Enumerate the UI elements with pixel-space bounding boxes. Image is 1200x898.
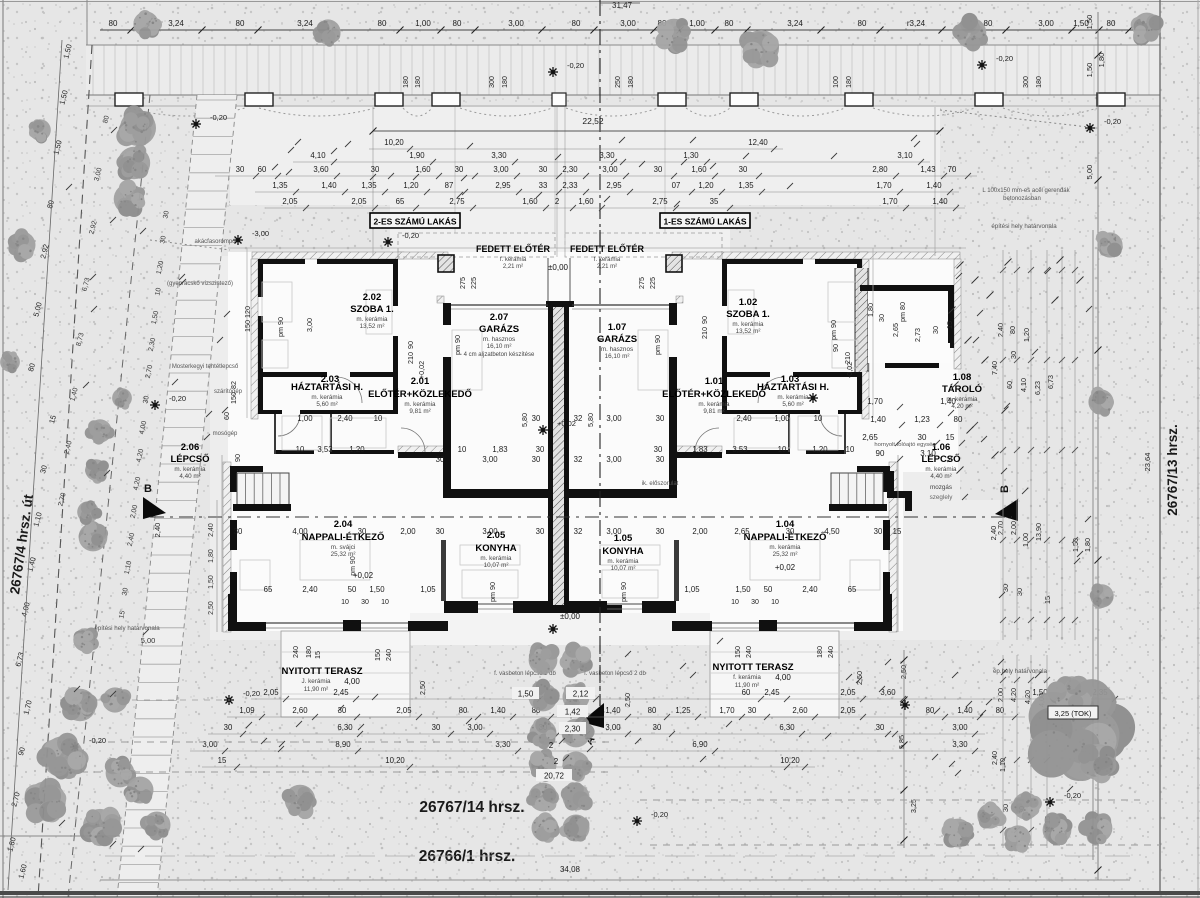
svg-text:30: 30 bbox=[654, 445, 663, 454]
svg-text:120: 120 bbox=[243, 306, 252, 318]
svg-text:1,30: 1,30 bbox=[683, 151, 699, 160]
svg-text:10: 10 bbox=[374, 414, 383, 423]
svg-text:B: B bbox=[999, 485, 1011, 493]
svg-text:LÉPCSŐ: LÉPCSŐ bbox=[170, 453, 209, 465]
svg-text:65: 65 bbox=[264, 585, 273, 594]
svg-text:KONYHA: KONYHA bbox=[602, 546, 643, 557]
svg-text:4,00: 4,00 bbox=[292, 527, 308, 536]
építési hely dotted bbox=[940, 110, 1088, 127]
svg-text:10,07 m²: 10,07 m² bbox=[611, 565, 636, 572]
tree bbox=[559, 815, 589, 842]
star marker bbox=[548, 67, 558, 77]
svg-text:32: 32 bbox=[574, 527, 583, 536]
wall bbox=[393, 336, 398, 377]
fence post bbox=[375, 93, 403, 106]
svg-text:32: 32 bbox=[574, 455, 583, 464]
svg-text:3,10: 3,10 bbox=[920, 449, 936, 458]
tree bbox=[739, 30, 779, 68]
svg-text:1,09: 1,09 bbox=[239, 706, 254, 715]
svg-text:80: 80 bbox=[858, 19, 867, 28]
svg-text:26766/1 hrsz.: 26766/1 hrsz. bbox=[419, 848, 516, 865]
tree bbox=[1028, 679, 1135, 781]
svg-text:pm 90: pm 90 bbox=[276, 317, 285, 337]
star marker bbox=[900, 700, 910, 710]
party-wall fence stub bbox=[552, 93, 566, 106]
star marker bbox=[1085, 123, 1095, 133]
tree bbox=[1004, 825, 1030, 852]
wall bbox=[408, 621, 448, 631]
svg-text:SZOBA 1.: SZOBA 1. bbox=[350, 304, 393, 315]
road pavement band with vertical hatch bbox=[86, 45, 1160, 95]
svg-text:1,50: 1,50 bbox=[369, 585, 385, 594]
svg-text:100: 100 bbox=[833, 76, 840, 88]
svg-text:15: 15 bbox=[218, 756, 227, 765]
svg-text:1,00: 1,00 bbox=[1021, 533, 1030, 547]
svg-text:25,32 m²: 25,32 m² bbox=[773, 551, 798, 558]
svg-text:m. kerámia: m. kerámia bbox=[777, 394, 809, 401]
svg-text:2,45: 2,45 bbox=[764, 688, 780, 697]
svg-text:2,21 m²: 2,21 m² bbox=[503, 264, 523, 270]
svg-text:3,00: 3,00 bbox=[606, 414, 622, 423]
svg-text:-0,20: -0,20 bbox=[1104, 117, 1121, 126]
wall bbox=[258, 372, 327, 377]
svg-text:akácfasorompó: akácfasorompó bbox=[194, 239, 236, 245]
svg-text:30: 30 bbox=[361, 599, 369, 606]
svg-text:m. kerámia: m. kerámia bbox=[174, 466, 206, 473]
svg-text:2,50: 2,50 bbox=[208, 601, 215, 615]
svg-text:m. kerámia: m. kerámia bbox=[769, 544, 801, 551]
svg-text:FEDETT ELŐTÉR: FEDETT ELŐTÉR bbox=[570, 243, 645, 254]
facade parallel guide lines bbox=[221, 455, 223, 632]
svg-text:3,25: 3,25 bbox=[909, 799, 918, 813]
star marker bbox=[548, 624, 558, 634]
svg-text:210: 210 bbox=[406, 352, 415, 364]
hedge overlay labels bbox=[512, 687, 539, 699]
wall bbox=[883, 572, 890, 594]
white strip between terraces bbox=[410, 613, 710, 645]
svg-text:6,30: 6,30 bbox=[337, 723, 353, 732]
svg-text:2,00: 2,00 bbox=[692, 527, 708, 536]
svg-text:r3,24: r3,24 bbox=[907, 19, 926, 28]
section marker B right bbox=[995, 499, 1018, 521]
svg-text:1,35: 1,35 bbox=[361, 181, 377, 190]
section line B-B over building bbox=[150, 516, 1012, 518]
svg-text:65: 65 bbox=[396, 197, 405, 206]
right lot boundary line bbox=[1159, 0, 1161, 893]
svg-text:34,08: 34,08 bbox=[560, 865, 581, 874]
svg-text:3,10: 3,10 bbox=[897, 151, 913, 160]
wall bbox=[722, 259, 803, 264]
building ground zone bbox=[210, 256, 1000, 640]
svg-text:1,40: 1,40 bbox=[926, 181, 942, 190]
wall bbox=[883, 520, 890, 550]
svg-text:07: 07 bbox=[672, 181, 681, 190]
fence post bbox=[1097, 93, 1125, 106]
tree bbox=[37, 733, 89, 780]
svg-text:6,23: 6,23 bbox=[1033, 381, 1042, 395]
svg-text:-0,20: -0,20 bbox=[243, 689, 260, 698]
svg-text:30: 30 bbox=[236, 165, 245, 174]
svg-text:16,10 m²: 16,10 m² bbox=[487, 343, 512, 350]
wall bbox=[883, 466, 890, 492]
svg-text:GARÁZS: GARÁZS bbox=[479, 324, 519, 335]
svg-text:2,60: 2,60 bbox=[292, 706, 308, 715]
svg-text:B: B bbox=[144, 483, 152, 495]
svg-text:f. kerámia: f. kerámia bbox=[500, 257, 527, 263]
entrance stair left 2.06 bbox=[237, 473, 289, 505]
svg-text:30: 30 bbox=[539, 165, 548, 174]
svg-text:pm 90: pm 90 bbox=[453, 335, 462, 355]
svg-text:80: 80 bbox=[725, 19, 734, 28]
tree bbox=[1090, 583, 1114, 608]
svg-text:2,40: 2,40 bbox=[337, 414, 353, 423]
svg-text:4 cm aljzatbeton készítése: 4 cm aljzatbeton készítése bbox=[464, 352, 535, 358]
svg-text:30: 30 bbox=[532, 414, 541, 423]
svg-text:225: 225 bbox=[648, 277, 657, 289]
tree bbox=[282, 785, 317, 819]
svg-text:2,40: 2,40 bbox=[153, 523, 162, 538]
svg-text:275: 275 bbox=[637, 277, 646, 289]
svg-text:26767/14 hrsz.: 26767/14 hrsz. bbox=[419, 799, 524, 816]
svg-text:8,90: 8,90 bbox=[335, 740, 351, 749]
right dimension line bbox=[1097, 12, 1099, 880]
wall bbox=[317, 259, 398, 264]
svg-text:2,05: 2,05 bbox=[840, 688, 856, 697]
svg-text:30: 30 bbox=[653, 723, 662, 732]
svg-text:3,00: 3,00 bbox=[202, 740, 218, 749]
tree size label bbox=[1048, 706, 1098, 719]
svg-text:-0,20: -0,20 bbox=[567, 61, 584, 70]
svg-text:4,40 m²: 4,40 m² bbox=[930, 473, 951, 480]
kitchen window right bbox=[607, 603, 642, 605]
section marker B left bbox=[143, 497, 166, 519]
svg-text:1,60: 1,60 bbox=[691, 165, 707, 174]
svg-text:4,00: 4,00 bbox=[775, 673, 791, 682]
tree bbox=[124, 777, 154, 804]
svg-text:3,00: 3,00 bbox=[602, 165, 618, 174]
utility sag dotted line bbox=[129, 108, 1097, 116]
tree bbox=[532, 812, 560, 843]
svg-text:30: 30 bbox=[224, 723, 233, 732]
svg-text:NYITOTT TERASZ: NYITOTT TERASZ bbox=[281, 666, 362, 677]
svg-text:30: 30 bbox=[751, 599, 759, 606]
svg-text:9,81 m²: 9,81 m² bbox=[703, 408, 724, 415]
bath south walls bbox=[274, 450, 314, 454]
svg-text:2,50: 2,50 bbox=[899, 665, 908, 679]
tree bbox=[8, 228, 36, 262]
svg-text:2,75: 2,75 bbox=[449, 197, 465, 206]
wall bbox=[443, 357, 451, 498]
tree bbox=[105, 756, 136, 788]
door arcs bbox=[336, 377, 362, 403]
svg-text:hornyolt tolóajtó egység: hornyolt tolóajtó egység bbox=[874, 442, 935, 448]
facade insulation hatch bbox=[252, 252, 404, 259]
svg-text:1,40: 1,40 bbox=[940, 397, 956, 406]
right side steps walls bbox=[887, 471, 894, 493]
fence post bbox=[432, 93, 460, 106]
svg-text:80: 80 bbox=[236, 19, 245, 28]
svg-text:2,40: 2,40 bbox=[302, 585, 318, 594]
svg-text:1,20: 1,20 bbox=[698, 181, 714, 190]
party wall top cap bbox=[546, 301, 574, 307]
svg-text:30: 30 bbox=[436, 455, 445, 464]
wall bbox=[838, 410, 862, 414]
tree bbox=[313, 19, 341, 46]
tree bbox=[1047, 676, 1094, 720]
wall bbox=[722, 372, 770, 377]
star marker bbox=[191, 119, 201, 129]
svg-text:1,83: 1,83 bbox=[492, 445, 507, 454]
right vertical chains bbox=[1002, 250, 1004, 640]
porch column right bbox=[666, 255, 682, 272]
svg-text:10: 10 bbox=[846, 445, 855, 454]
wall bbox=[228, 622, 266, 631]
svg-text:1,80: 1,80 bbox=[866, 303, 875, 317]
tároló walls bbox=[860, 285, 954, 291]
tree bbox=[942, 818, 975, 847]
star marker bbox=[1045, 797, 1055, 807]
tree bbox=[977, 801, 1006, 828]
tick scatter right of building bbox=[957, 262, 964, 269]
svg-text:1.02: 1.02 bbox=[739, 297, 758, 308]
wall bbox=[857, 372, 862, 414]
svg-text:+0,02: +0,02 bbox=[775, 563, 796, 572]
svg-text:1,00: 1,00 bbox=[689, 19, 705, 28]
wall bbox=[230, 520, 237, 550]
svg-text:1,00: 1,00 bbox=[297, 414, 313, 423]
building footprint white bbox=[228, 252, 958, 631]
svg-text:30: 30 bbox=[1001, 584, 1010, 592]
svg-text:3,24: 3,24 bbox=[297, 19, 313, 28]
wall bbox=[722, 410, 820, 414]
svg-text:31,47: 31,47 bbox=[612, 1, 633, 10]
svg-text:90: 90 bbox=[876, 449, 885, 458]
svg-text:1,20: 1,20 bbox=[1022, 328, 1031, 342]
garage door right bbox=[572, 304, 669, 306]
svg-text:3,00: 3,00 bbox=[606, 527, 622, 536]
wall bbox=[564, 601, 607, 613]
svg-text:pm 90: pm 90 bbox=[488, 582, 497, 602]
svg-text:6,30: 6,30 bbox=[779, 723, 795, 732]
wall bbox=[258, 316, 263, 377]
svg-text:2,70: 2,70 bbox=[996, 521, 1005, 535]
svg-text:10,07 m²: 10,07 m² bbox=[484, 562, 509, 569]
svg-text:m. kerámia: m. kerámia bbox=[480, 555, 512, 562]
wall bbox=[258, 410, 282, 414]
svg-text:30: 30 bbox=[739, 165, 748, 174]
svg-text:180: 180 bbox=[1036, 76, 1043, 88]
svg-text:3,00: 3,00 bbox=[606, 455, 622, 464]
svg-text:1,70: 1,70 bbox=[867, 397, 883, 406]
tree bbox=[1088, 387, 1114, 417]
svg-text:mosógép: mosógép bbox=[213, 431, 238, 437]
svg-text:16,10 m²: 16,10 m² bbox=[605, 353, 630, 360]
svg-text:10: 10 bbox=[458, 445, 467, 454]
svg-text:3,00: 3,00 bbox=[605, 723, 621, 732]
svg-text:80: 80 bbox=[378, 19, 387, 28]
svg-text:-0,20: -0,20 bbox=[651, 810, 668, 819]
star marker bbox=[632, 816, 642, 826]
svg-text:1,83: 1,83 bbox=[692, 445, 707, 454]
tree bbox=[133, 10, 162, 39]
tree bbox=[24, 778, 66, 823]
sheet bottom edge bbox=[0, 891, 1200, 895]
svg-text:1,20: 1,20 bbox=[812, 445, 828, 454]
svg-text:2: 2 bbox=[549, 741, 554, 750]
svg-text:2,05: 2,05 bbox=[351, 197, 367, 206]
tároló wing hatch wall bbox=[855, 268, 868, 372]
svg-text:m. kerámia: m. kerámia bbox=[607, 558, 639, 565]
svg-text:m. kerámia: m. kerámia bbox=[404, 401, 436, 408]
svg-text:szárítógép: szárítógép bbox=[214, 389, 243, 395]
svg-text:250: 250 bbox=[615, 76, 622, 88]
wall bbox=[722, 336, 727, 377]
svg-text:2,05: 2,05 bbox=[840, 706, 856, 715]
wall bbox=[393, 259, 398, 306]
svg-text:1,60: 1,60 bbox=[415, 165, 431, 174]
svg-text:13,52 m²: 13,52 m² bbox=[360, 323, 385, 330]
svg-text:-0,20: -0,20 bbox=[1064, 791, 1081, 800]
sheet top edge bbox=[0, 1, 1200, 3]
centreline over building bbox=[599, 230, 601, 706]
svg-text:3,00: 3,00 bbox=[482, 527, 498, 536]
svg-text:3,24: 3,24 bbox=[168, 19, 184, 28]
svg-text:1,70: 1,70 bbox=[876, 181, 892, 190]
svg-text:-0,02: -0,02 bbox=[845, 362, 854, 378]
svg-text:5,80: 5,80 bbox=[586, 413, 595, 427]
tree bbox=[563, 682, 590, 711]
fence line with posts bbox=[86, 94, 1160, 96]
svg-text:2.06: 2.06 bbox=[181, 442, 200, 453]
svg-text:80: 80 bbox=[1107, 19, 1116, 28]
svg-text:NAPPALI-ÉTKEZŐ: NAPPALI-ÉTKEZŐ bbox=[302, 531, 385, 543]
svg-text:6,90: 6,90 bbox=[692, 740, 708, 749]
svg-text:1,40: 1,40 bbox=[490, 706, 506, 715]
svg-text:11,90 m²: 11,90 m² bbox=[304, 686, 328, 693]
svg-text:1,43: 1,43 bbox=[920, 165, 935, 174]
star marker bbox=[977, 60, 987, 70]
svg-text:90: 90 bbox=[406, 341, 415, 349]
svg-text:80: 80 bbox=[996, 706, 1005, 715]
svg-text:300: 300 bbox=[1023, 76, 1030, 88]
svg-text:1,50: 1,50 bbox=[208, 575, 215, 589]
wall bbox=[343, 620, 361, 631]
svg-text:30: 30 bbox=[874, 527, 883, 536]
svg-text:f. kerámia: f. kerámia bbox=[733, 674, 761, 681]
porch outline right bbox=[565, 233, 722, 257]
wall bbox=[854, 622, 892, 631]
svg-text:80: 80 bbox=[648, 706, 657, 715]
svg-text:26767/13 hrsz.: 26767/13 hrsz. bbox=[1165, 424, 1180, 516]
svg-text:4,50: 4,50 bbox=[824, 527, 840, 536]
svg-text:1,25: 1,25 bbox=[675, 706, 691, 715]
svg-text:3,00: 3,00 bbox=[493, 165, 509, 174]
wall bbox=[857, 466, 890, 472]
wall bbox=[258, 372, 263, 414]
south window right bbox=[712, 622, 759, 624]
svg-text:GARÁZS: GARÁZS bbox=[597, 334, 637, 345]
svg-text:15: 15 bbox=[1043, 596, 1052, 604]
svg-text:3,00: 3,00 bbox=[305, 318, 314, 332]
svg-text:2,05: 2,05 bbox=[396, 706, 412, 715]
svg-text:15: 15 bbox=[893, 527, 902, 536]
svg-text:30: 30 bbox=[234, 527, 243, 536]
svg-text:1,40: 1,40 bbox=[932, 197, 948, 206]
wall bbox=[230, 572, 237, 594]
svg-text:4,10: 4,10 bbox=[1019, 378, 1028, 392]
wall bbox=[443, 489, 556, 498]
svg-text:10: 10 bbox=[778, 445, 787, 454]
svg-text:50: 50 bbox=[764, 585, 773, 594]
svg-text:2,65: 2,65 bbox=[862, 433, 878, 442]
wall bbox=[444, 601, 478, 613]
fence post bbox=[658, 93, 686, 106]
svg-text:1,70: 1,70 bbox=[882, 197, 898, 206]
svg-text:1,20: 1,20 bbox=[403, 181, 419, 190]
sheet edge left bbox=[2, 0, 4, 898]
site centreline (dash-dot) bbox=[599, 0, 601, 706]
svg-text:80: 80 bbox=[1008, 326, 1017, 334]
svg-text:f. vasbeton lépcső 2 db: f. vasbeton lépcső 2 db bbox=[584, 671, 646, 677]
svg-text:80: 80 bbox=[459, 706, 468, 715]
svg-text:3,60: 3,60 bbox=[313, 165, 329, 174]
svg-text:3,00: 3,00 bbox=[467, 723, 483, 732]
svg-text:(gyeprácskő vízszintező): (gyeprácskő vízszintező) bbox=[167, 281, 233, 287]
svg-text:1.07: 1.07 bbox=[608, 322, 627, 333]
svg-text:2,75: 2,75 bbox=[652, 197, 668, 206]
wall bbox=[883, 594, 892, 631]
star marker bbox=[538, 425, 548, 435]
svg-text:3,30: 3,30 bbox=[599, 151, 615, 160]
svg-text:-0,20: -0,20 bbox=[169, 394, 186, 403]
svg-text:30: 30 bbox=[1001, 804, 1010, 812]
wall bbox=[672, 621, 712, 631]
svg-text:2,33: 2,33 bbox=[562, 181, 577, 190]
svg-text:1,00: 1,00 bbox=[774, 414, 790, 423]
svg-text:2,05: 2,05 bbox=[282, 197, 298, 206]
wardrobe / fixture lines bbox=[262, 282, 292, 322]
svg-text:65: 65 bbox=[848, 585, 857, 594]
svg-text:-0,20: -0,20 bbox=[402, 231, 419, 240]
svg-text:30: 30 bbox=[931, 326, 940, 334]
svg-text:30: 30 bbox=[432, 723, 441, 732]
svg-text:30: 30 bbox=[536, 527, 545, 536]
svg-text:3,53: 3,53 bbox=[732, 445, 747, 454]
tree bbox=[0, 351, 20, 373]
open terrace left bbox=[281, 631, 410, 717]
tree bbox=[562, 717, 595, 748]
svg-text:1,50: 1,50 bbox=[735, 585, 751, 594]
svg-text:2,40: 2,40 bbox=[208, 523, 215, 537]
svg-text:80: 80 bbox=[453, 19, 462, 28]
svg-text:1,50: 1,50 bbox=[1085, 15, 1094, 30]
svg-text:m. kerámia: m. kerámia bbox=[311, 394, 343, 401]
svg-text:10: 10 bbox=[771, 599, 779, 606]
tree bbox=[79, 521, 109, 551]
svg-text:90: 90 bbox=[233, 454, 242, 462]
wall bbox=[793, 372, 862, 377]
star marker bbox=[233, 235, 243, 245]
tree bbox=[116, 145, 150, 181]
tree bbox=[528, 679, 560, 712]
svg-text:3,25 (TOK): 3,25 (TOK) bbox=[1055, 709, 1092, 718]
svg-text:3,60: 3,60 bbox=[880, 688, 896, 697]
tree bbox=[80, 807, 122, 847]
svg-text:KONYHA: KONYHA bbox=[475, 543, 516, 554]
svg-text:2: 2 bbox=[555, 197, 559, 206]
svg-text:90: 90 bbox=[700, 316, 709, 324]
svg-text:2,40: 2,40 bbox=[802, 585, 818, 594]
